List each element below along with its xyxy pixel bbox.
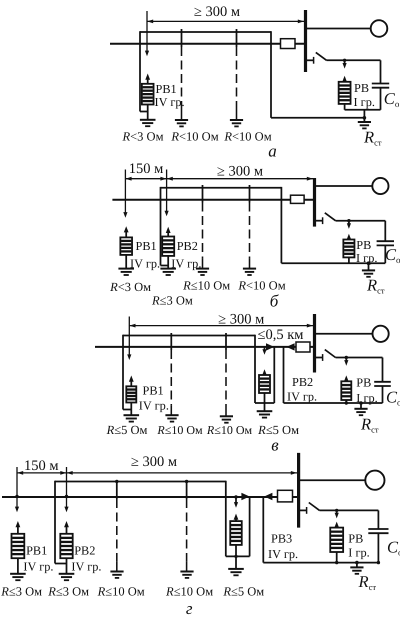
label R≤5 Ом second (в) xyxy=(257,423,299,437)
arrester РВ2 IV гр. (в) xyxy=(259,369,270,411)
connection stub with gap arrow for РВ2 (в) xyxy=(262,347,266,355)
svg-text:РВ3: РВ3 xyxy=(271,532,292,546)
extension line with arrow at РВ1 (г) xyxy=(15,467,19,512)
disconnect switch (г) xyxy=(300,503,378,514)
dashed grounding descent 2 (a) xyxy=(236,29,238,120)
ground of descent 1 (a) xyxy=(175,120,188,126)
label R≤3 Ом second (г) xyxy=(47,585,89,599)
ground of descent 2 (г) xyxy=(180,572,193,578)
wire: bottom tie line (б) xyxy=(281,262,385,264)
label РВ2 (г) xyxy=(74,544,95,558)
extension line with arrow at РВ2 (г) xyxy=(64,467,68,512)
dashed grounding descent 1 (б) xyxy=(202,185,204,268)
label IV гр. under РВ1 (б) xyxy=(130,256,160,270)
label I гр. (б) xyxy=(356,251,377,265)
wire: drop at cable entry down to station earth line (a) xyxy=(270,31,272,118)
svg-text:IV гр.: IV гр. xyxy=(155,95,185,109)
wire: corner drop to РВ2 bottom (б) xyxy=(161,187,169,266)
junction node at switch wire (в) xyxy=(345,356,348,359)
ground of РВ1 (a) xyxy=(140,120,156,126)
disconnect switch (б) xyxy=(316,213,385,224)
wire: РВ3 loop bottom (г) xyxy=(226,555,250,557)
label I гр. (a) xyxy=(354,95,375,109)
label Co (б) xyxy=(385,245,400,265)
wire: left corner drop to РВ1 ground (a) xyxy=(140,31,148,111)
ground of РВ2 (в) xyxy=(257,411,273,417)
svg-text:РВ: РВ xyxy=(354,81,369,95)
capacitor Co (г) xyxy=(368,510,388,562)
sub-figure letter а xyxy=(268,142,277,161)
svg-text:г: г xyxy=(186,599,193,618)
svg-text:≥ 300 м: ≥ 300 м xyxy=(131,454,177,470)
junction node and gap arrow for РВ3 (г) xyxy=(234,495,238,507)
wire: left corner drop to РВ1 bottom (в) xyxy=(123,335,131,410)
svg-text:R≤10 Ом: R≤10 Ом xyxy=(165,585,213,599)
label R<3 Ом (a) xyxy=(121,130,163,144)
cable coupling box (в) xyxy=(296,342,310,352)
ground of РВ2 (г) xyxy=(59,574,75,580)
dimension 150 м label (г) xyxy=(24,458,59,474)
svg-text:в: в xyxy=(271,436,279,455)
arrester РВ1 IV гр. (в) xyxy=(126,376,136,416)
ground of РВ2 (б) xyxy=(160,269,176,275)
svg-text:R<3 Ом: R<3 Ом xyxy=(109,280,151,294)
wire: corner drop to РВ2 bottom (г) xyxy=(55,481,67,564)
extension line with arrow at РВ1 (в) xyxy=(127,317,131,361)
svg-text:РВ1: РВ1 xyxy=(136,239,157,253)
junction node at switch wire (б) xyxy=(347,219,350,222)
disconnect switch (в) xyxy=(316,350,383,361)
station ground node and stub (г) xyxy=(355,561,359,568)
svg-text:РВ1: РВ1 xyxy=(26,544,47,558)
arrester РВ I гр. station (в) xyxy=(341,358,351,404)
svg-text:R≤10 Ом: R≤10 Ом xyxy=(206,423,253,437)
dimension line ≥300 м (б) xyxy=(167,177,313,181)
extension line with arrow at РВ1 (б) xyxy=(123,170,127,218)
label РВ station (в) xyxy=(356,376,371,390)
label Co (a) xyxy=(384,89,400,109)
svg-text:Rст: Rст xyxy=(360,415,379,435)
label R≤10 Ом second (г) xyxy=(165,585,213,599)
wire: upper line conductor (a) xyxy=(140,31,271,33)
sub-figure letter г xyxy=(186,599,193,618)
arrester РВ2 IV гр. (б) xyxy=(162,227,174,269)
label Co (в) xyxy=(386,388,400,408)
label R<10 Ом first (a) xyxy=(170,130,218,144)
arrester РВ1 IV гр. (a) xyxy=(142,74,154,120)
label Co (г) xyxy=(387,538,400,558)
svg-text:б: б xyxy=(270,292,279,311)
marker triangle right (cable section start) (в) xyxy=(266,343,274,350)
dimension ≤0,5 км label (в) xyxy=(258,327,304,343)
dimension line 150 м (б) xyxy=(125,177,166,181)
label РВ2 (в) xyxy=(292,375,313,389)
label R≤5 Ом (г) xyxy=(222,585,264,599)
wire: upper line conductor (г) xyxy=(55,481,226,483)
svg-text:РВ: РВ xyxy=(348,532,363,546)
svg-text:РВ2: РВ2 xyxy=(74,544,95,558)
generator circle (б) xyxy=(372,178,388,194)
junction node at switch wire (a) xyxy=(343,59,346,62)
dimension line ≥300 м (в) xyxy=(129,324,313,328)
svg-text:IV гр.: IV гр. xyxy=(139,399,169,413)
svg-text:I гр.: I гр. xyxy=(348,546,369,560)
svg-text:150 м: 150 м xyxy=(24,458,59,474)
wire: РВ3 loop left drop (г) xyxy=(225,481,227,557)
arrester РВ2 IV гр. (г) xyxy=(60,521,72,574)
svg-text:IV гр.: IV гр. xyxy=(130,256,160,270)
svg-text:Со: Со xyxy=(385,245,400,265)
svg-text:R<10 Ом: R<10 Ом xyxy=(223,130,271,144)
cable coupling box (б) xyxy=(291,195,305,203)
wire: main line conductor (в) xyxy=(95,346,313,348)
svg-text:IV гр.: IV гр. xyxy=(71,559,101,573)
label R≤10 Ом first (в) xyxy=(156,423,203,437)
svg-text:Со: Со xyxy=(386,388,400,408)
svg-text:R<3 Ом: R<3 Ом xyxy=(121,130,163,144)
label РВ1 (г) xyxy=(26,544,47,558)
wire: drop to station earth line (в) xyxy=(283,347,285,403)
station ground symbol (a) xyxy=(358,122,371,128)
svg-text:≥ 300 м: ≥ 300 м xyxy=(194,4,240,20)
svg-text:≤0,5 км: ≤0,5 км xyxy=(258,327,304,343)
arrester РВ1 IV гр. (б) xyxy=(120,226,132,268)
wire: main line conductor (a) xyxy=(110,43,304,45)
label Rст (в) xyxy=(360,415,379,435)
wire: drop at cable entry to earth line (б) xyxy=(280,187,282,263)
wire: loop left drop (corner of upper wire) (в) xyxy=(254,335,256,403)
svg-text:РВ2: РВ2 xyxy=(177,239,198,253)
station ground symbol (г) xyxy=(350,567,363,573)
label R≤5 Ом first (в) xyxy=(106,423,148,437)
wire to generator (б) xyxy=(316,185,372,187)
svg-text:R<10 Ом: R<10 Ом xyxy=(237,279,285,293)
wire: bottom tie line (a) xyxy=(345,109,381,111)
dimension ≥300 м label (a) xyxy=(194,4,240,20)
wire: РВ3 loop right drop (г) xyxy=(249,497,251,557)
label IV гр. under РВ1 (г) xyxy=(23,559,53,573)
dimension line ≥300 м (г) xyxy=(67,471,298,475)
wire: upper line conductor (б) xyxy=(161,187,282,189)
wire: upper line conductor (в) xyxy=(123,335,255,337)
station busbar (в) xyxy=(313,314,316,373)
svg-text:R≤5 Ом: R≤5 Ом xyxy=(222,585,264,599)
extension line with arrow at РВ2 (б) xyxy=(165,170,169,217)
station ground stub and node (a) xyxy=(363,110,367,122)
arrester РВ I гр. station (б) xyxy=(343,221,354,264)
svg-text:R≤10 Ом: R≤10 Ом xyxy=(182,279,230,293)
label РВ1 (б) xyxy=(136,239,157,253)
label РВ2 (б) xyxy=(177,239,198,253)
label РВ station (б) xyxy=(356,238,371,252)
generator circle (г) xyxy=(365,471,384,490)
label R≤3 Ом (б) xyxy=(151,293,193,307)
svg-text:150 м: 150 м xyxy=(129,161,164,177)
ground of descent 2 (в) xyxy=(220,416,233,422)
marker triangle left (cable section end) (в) xyxy=(286,343,294,350)
svg-text:Rст: Rст xyxy=(358,572,377,592)
marker triangle right (г) xyxy=(241,493,249,500)
label IV гр. under РВ2 (в) xyxy=(287,390,317,404)
label R≤3 Ом first (г) xyxy=(0,585,42,599)
arrester РВ3 IV гр. (г) xyxy=(230,514,242,569)
svg-text:R≤3 Ом: R≤3 Ом xyxy=(47,585,89,599)
label R≤10 Ом (б) xyxy=(182,279,230,293)
wire: main line conductor (б) xyxy=(112,199,313,201)
label IV гр. under РВ3 (г) xyxy=(268,547,298,561)
svg-text:R≤10 Ом: R≤10 Ом xyxy=(97,585,145,599)
ground of descent 2 (a) xyxy=(230,120,243,126)
dashed grounding descent 2 (б) xyxy=(249,185,251,268)
svg-text:Rст: Rст xyxy=(363,128,382,148)
wire to generator (в) xyxy=(316,333,373,335)
label I гр. (в) xyxy=(356,391,377,405)
generator circle (в) xyxy=(373,326,389,342)
extension line with down arrow at РВ1 point (a) xyxy=(145,11,149,56)
dimension line ≥300 м (a) xyxy=(147,20,304,24)
svg-text:IV гр.: IV гр. xyxy=(23,559,53,573)
station ground node and stub (б) xyxy=(367,261,371,270)
wire: bottom tie line (в) xyxy=(284,401,383,404)
arrester РВ I гр. station (a) xyxy=(339,60,351,110)
dimension 150 м label (б) xyxy=(129,161,164,177)
capacitor Co (в) xyxy=(374,358,391,404)
capacitor Co (a) xyxy=(372,60,389,110)
ground of РВ1 (в) xyxy=(124,415,140,421)
dimension line 150 м (г) xyxy=(17,471,67,475)
wire: loop bottom (в) xyxy=(255,402,274,404)
sub-figure letter в xyxy=(271,436,279,455)
svg-text:I гр.: I гр. xyxy=(354,95,375,109)
svg-text:R≤3 Ом: R≤3 Ом xyxy=(0,585,42,599)
label IV гр. (в) xyxy=(139,399,169,413)
label Rст (г) xyxy=(358,572,377,592)
junction dots on upper wire (г) xyxy=(115,480,188,483)
generator circle (a) xyxy=(371,20,388,37)
label R<10 Ом second (a) xyxy=(223,130,271,144)
svg-text:Rст: Rст xyxy=(366,276,385,296)
sub-figure letter б xyxy=(270,292,279,311)
wire: earth line to station ground (a) xyxy=(271,117,364,119)
ground of РВ1 (г) xyxy=(10,574,26,580)
arrester РВ1 IV гр. (г) xyxy=(12,521,25,574)
label R≤10 Ом first (г) xyxy=(97,585,145,599)
dimension ≥300 м label (в) xyxy=(218,311,264,327)
label R<3 Ом (б) xyxy=(109,280,151,294)
ground of РВ1 (б) xyxy=(118,269,134,275)
arrester РВ I гр. station (г) xyxy=(330,510,343,562)
marker triangle left (г) xyxy=(264,493,272,500)
label РВ station (г) xyxy=(348,532,363,546)
label IV гр. (a) xyxy=(155,95,185,109)
svg-text:РВ2: РВ2 xyxy=(292,375,313,389)
label РВ1 (a) xyxy=(156,82,177,96)
wire: drop to station earth line (г) xyxy=(262,497,264,563)
dimension ≥300 м label (г) xyxy=(131,454,177,470)
svg-text:РВ: РВ xyxy=(356,238,371,252)
junction dots on main line (г) xyxy=(15,495,68,498)
svg-text:R<10 Ом: R<10 Ом xyxy=(170,130,218,144)
dimension ≥300 м label (б) xyxy=(217,163,263,179)
station ground symbol (в) xyxy=(354,409,367,415)
svg-text:РВ: РВ xyxy=(356,376,371,390)
wire: loop right drop from main line (в) xyxy=(273,347,275,403)
junction node at switch wire (г) xyxy=(335,509,338,512)
station busbar (г) xyxy=(297,453,300,528)
label РВ3 (г) xyxy=(271,532,292,546)
label Rст (б) xyxy=(366,276,385,296)
ground of descent 2 (б) xyxy=(243,269,256,275)
station ground node and stub (в) xyxy=(359,401,363,409)
dashed grounding descent 1 (a) xyxy=(181,29,183,120)
cable coupling box (г) xyxy=(278,490,293,502)
wire to generator (a) xyxy=(307,28,371,30)
svg-text:≥ 300 м: ≥ 300 м xyxy=(217,163,263,179)
cable coupling box (a) xyxy=(281,39,296,49)
svg-text:Со: Со xyxy=(384,89,400,109)
svg-text:R≤5 Ом: R≤5 Ом xyxy=(106,423,148,437)
ground of РВ3 (г) xyxy=(228,569,244,575)
capacitor Co (б) xyxy=(377,221,394,264)
ground of descent 1 (б) xyxy=(196,269,209,275)
station ground symbol (б) xyxy=(362,270,375,276)
label I гр. (г) xyxy=(348,546,369,560)
svg-text:а: а xyxy=(268,142,277,161)
ground of descent 1 (в) xyxy=(165,415,178,421)
svg-text:≥ 300 м: ≥ 300 м xyxy=(218,311,264,327)
svg-text:R≤3 Ом: R≤3 Ом xyxy=(151,293,193,307)
svg-text:R≤10 Ом: R≤10 Ом xyxy=(156,423,203,437)
dashed grounding descent 1 (в) xyxy=(170,333,172,415)
wire: main line conductor (г) xyxy=(2,496,297,498)
dashed grounding descent 1 (г) xyxy=(116,482,118,572)
disconnect switch (a) xyxy=(307,52,381,63)
label Rст (a) xyxy=(363,128,382,148)
label IV гр. under РВ2 (г) xyxy=(71,559,101,573)
svg-text:РВ1: РВ1 xyxy=(156,82,177,96)
dashed grounding descent 2 (г) xyxy=(186,482,188,572)
ground of descent 1 (г) xyxy=(110,572,123,578)
station busbar (a) xyxy=(304,10,307,72)
label IV гр. under РВ2 (б) xyxy=(171,256,201,270)
dashed grounding descent 2 (в) xyxy=(225,333,227,416)
svg-text:РВ1: РВ1 xyxy=(143,384,164,398)
station busbar (б) xyxy=(313,178,316,227)
wire: bottom tie line (г) xyxy=(263,561,380,564)
label R<10 Ом (б) xyxy=(237,279,285,293)
svg-text:Со: Со xyxy=(387,538,400,558)
label РВ station (a) xyxy=(354,81,369,95)
label РВ1 (в) xyxy=(143,384,164,398)
label R≤10 Ом second (в) xyxy=(206,423,253,437)
wire to generator (г) xyxy=(300,479,365,481)
svg-text:IV гр.: IV гр. xyxy=(287,390,317,404)
svg-text:IV гр.: IV гр. xyxy=(268,547,298,561)
